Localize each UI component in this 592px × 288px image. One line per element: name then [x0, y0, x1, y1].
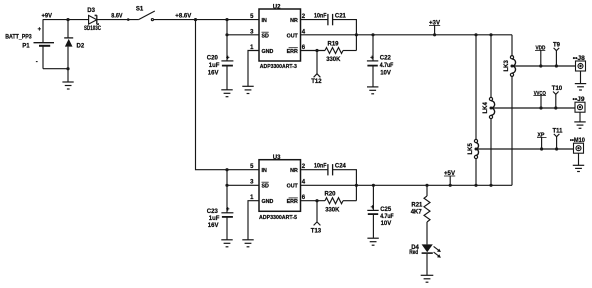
junction (ERR/T12): [315, 49, 318, 52]
svg-text:IN: IN: [262, 18, 267, 24]
svg-text:330K: 330K: [326, 57, 341, 63]
wire GND pin (top IC): [248, 51, 259, 87]
svg-text:IN: IN: [262, 168, 267, 174]
svg-text:1uF: 1uF: [209, 63, 220, 69]
junction (C24/R20 on +5V): [355, 184, 358, 187]
svg-text:4.7uF: 4.7uF: [380, 63, 394, 69]
svg-text:S1: S1: [136, 6, 144, 12]
svg-text:GND: GND: [262, 199, 274, 205]
link LK3: [504, 56, 516, 77]
svg-text:U2: U2: [273, 4, 281, 10]
ground (C25): [367, 238, 378, 245]
wire ERR (top): [301, 50, 326, 52]
node +9V: [42, 14, 53, 20]
ground (M10): [573, 153, 584, 171]
test point T12: [311, 51, 322, 85]
svg-text:16V: 16V: [208, 223, 219, 229]
test point T11: [553, 129, 564, 151]
svg-text:NR: NR: [290, 168, 298, 174]
junction (C23/SD drop, bottom feed): [225, 168, 228, 171]
connector M10: [570, 138, 586, 153]
ground (J8): [575, 71, 586, 90]
node +5V: [444, 171, 455, 187]
ground (J9): [574, 112, 585, 128]
connector J9: [573, 97, 586, 112]
wire C21 to OUT: [333, 20, 357, 35]
junction (SD tap, bottom): [225, 184, 228, 187]
wire NR (top): [301, 19, 328, 21]
svg-text:+8.6V: +8.6V: [175, 14, 191, 20]
svg-text:R20: R20: [325, 192, 337, 198]
svg-text:LK4: LK4: [483, 102, 489, 114]
junction (C25 on +5V): [372, 184, 375, 187]
svg-text:T13: T13: [311, 228, 322, 234]
diode D3 SD103C (schottky): [84, 8, 101, 32]
wire SD/C23 vertical (bottom): [226, 170, 228, 213]
wire SD/C20 vertical (top): [226, 20, 228, 61]
junction (ERR/T13): [315, 199, 318, 202]
wire top rail right (switch to U2 IN): [154, 19, 259, 21]
junction (small dot on rail): [127, 18, 130, 21]
svg-text:330K: 330K: [325, 207, 340, 213]
svg-text:C23: C23: [207, 209, 219, 215]
svg-text:C25: C25: [380, 207, 392, 213]
svg-text:-: -: [36, 60, 38, 66]
wire VDD line: [512, 65, 576, 67]
ground (battery): [62, 69, 73, 89]
wire +5V rail (U3 OUT): [301, 184, 513, 186]
ground (U3 GND): [242, 240, 253, 247]
svg-text:ERR: ERR: [287, 49, 298, 55]
resistor R21 4K7: [411, 185, 430, 244]
junction (LK5 bottom on +5V): [474, 184, 477, 187]
svg-text:LK3: LK3: [504, 60, 510, 72]
diode D2: [64, 20, 85, 69]
svg-text:ERR: ERR: [287, 199, 298, 205]
wire SD pin (top): [227, 34, 259, 36]
link LK4: [483, 97, 495, 118]
svg-text:D3: D3: [87, 8, 95, 14]
link LK5: [468, 139, 478, 158]
svg-text:D2: D2: [77, 44, 85, 50]
svg-text:16V: 16V: [208, 71, 219, 77]
capacitor C25 4.7uF 10V: [367, 185, 394, 238]
wire LK5 lower drop: [475, 159, 477, 186]
wire C24 to OUT: [333, 170, 357, 186]
op-amp U3 ADP3300ART-5 regulator box: [259, 155, 301, 221]
svg-text:ADP3300ART-5: ADP3300ART-5: [259, 215, 297, 221]
pin numbers U3: [250, 164, 306, 201]
wire SD pin (bottom): [227, 184, 259, 186]
test point T10: [552, 86, 563, 109]
svg-text:U3: U3: [273, 155, 281, 161]
svg-text:3: 3: [250, 179, 254, 185]
test point T13: [311, 201, 322, 235]
wire feed to bottom regulator: [196, 20, 260, 170]
junction (D2 top on +9V rail): [66, 18, 69, 21]
capacitor C24 10nF: [314, 164, 347, 176]
pin numbers U2: [250, 14, 306, 51]
node +3V: [429, 21, 440, 37]
svg-text:C22: C22: [380, 56, 392, 62]
svg-text:+: +: [38, 27, 42, 33]
junction (SD/C20 drop): [225, 18, 228, 21]
svg-text:OUT: OUT: [287, 183, 299, 189]
resistor R19 330K: [325, 35, 356, 63]
svg-text:10V: 10V: [381, 221, 392, 227]
svg-text:4.7uF: 4.7uF: [380, 214, 394, 220]
wire LK4 upper drop: [490, 35, 492, 98]
battery P1 BATT_PP3: [5, 20, 68, 69]
ground (C23): [221, 240, 232, 247]
svg-text:SD: SD: [262, 33, 270, 39]
resistor R20 330K: [325, 185, 357, 213]
junction (LK4 bottom on +5V): [489, 184, 492, 187]
ground (D4): [421, 275, 434, 282]
svg-text:+9V: +9V: [42, 14, 53, 20]
svg-text:T12: T12: [311, 79, 322, 85]
wire LK3 upper drop: [511, 35, 513, 56]
wire ERR (bottom): [301, 200, 326, 202]
LED D4 Red: [409, 244, 441, 275]
junction (LK5 top on +3V): [474, 33, 477, 36]
node VDD: [535, 46, 545, 68]
svg-text:C20: C20: [207, 56, 219, 62]
ground (C22): [367, 87, 378, 94]
wire XP line: [476, 148, 574, 150]
ground (U2 GND): [242, 86, 253, 93]
op-amp U2 ADP3300ART-3 regulator box: [259, 4, 301, 70]
svg-text:8.6V: 8.6V: [111, 13, 122, 19]
svg-text:T9: T9: [553, 42, 561, 48]
node VVCO: [533, 91, 546, 110]
junction (R21 on +5V): [425, 184, 428, 187]
wire NR (bottom): [301, 169, 328, 171]
capacitor C22 4.7uF 10V: [367, 35, 394, 87]
svg-text:SD103C: SD103C: [84, 26, 101, 32]
junction (C22 on +3V): [371, 33, 374, 36]
junction (feed to U3): [194, 18, 197, 21]
wire VVCO line: [491, 107, 575, 109]
junction (SD tap, top): [225, 33, 228, 36]
svg-text:BATT_PP3: BATT_PP3: [5, 34, 32, 40]
wire top rail left (battery to switch): [43, 19, 139, 21]
switch S1: [136, 6, 155, 20]
svg-text:4K7: 4K7: [411, 210, 423, 216]
wire LK5 upper drop: [475, 35, 477, 140]
svg-text:1uF: 1uF: [209, 216, 220, 222]
junction (LK4 top on +3V): [489, 33, 492, 36]
capacitor C20 1uF 16V: [207, 55, 234, 89]
svg-text:SD: SD: [262, 183, 270, 189]
ground (C20): [221, 90, 232, 97]
wire LK4 lower drop: [490, 119, 492, 186]
junction (C21/R19 on +3V): [355, 33, 358, 36]
svg-text:R21: R21: [411, 202, 423, 208]
svg-text:GND: GND: [262, 49, 274, 55]
junction (battery minus / D2 anode): [66, 67, 69, 70]
svg-text:10V: 10V: [380, 70, 391, 76]
svg-text:C24: C24: [335, 164, 347, 170]
test point T9: [553, 42, 561, 67]
svg-text:LK5: LK5: [468, 143, 474, 155]
wire +3V rail (U2 OUT): [301, 34, 513, 36]
svg-text:R19: R19: [328, 41, 340, 47]
wire LK3 lower drop: [511, 77, 513, 186]
connector J8: [573, 56, 586, 71]
svg-text:P1: P1: [22, 44, 30, 50]
svg-text:C21: C21: [335, 13, 347, 19]
wire GND pin (bottom IC): [248, 201, 259, 240]
svg-text:10nF: 10nF: [314, 13, 327, 19]
svg-text:OUT: OUT: [287, 33, 299, 39]
svg-text:NR: NR: [290, 18, 298, 24]
svg-text:4: 4: [302, 179, 306, 185]
svg-text:Red: Red: [409, 250, 418, 256]
node XP: [537, 133, 547, 151]
node +8.6V: [175, 14, 191, 20]
svg-text:10nF: 10nF: [314, 164, 327, 170]
capacitor C21 10nF: [314, 13, 347, 25]
svg-text:ADP3300ART-3: ADP3300ART-3: [260, 64, 297, 70]
capacitor C23 1uF 16V: [207, 207, 234, 239]
